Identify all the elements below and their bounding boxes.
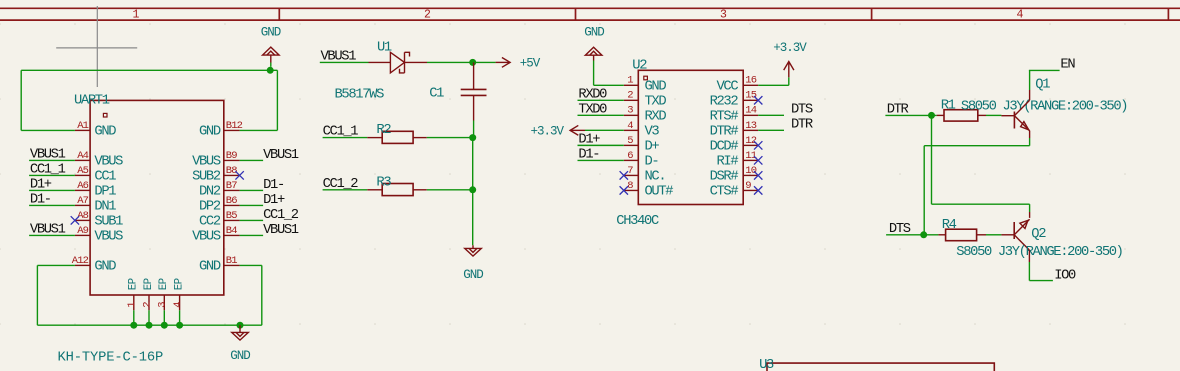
transistor Q2 (S8050 NPN, mirrored) <box>1014 219 1029 250</box>
junction EP3 <box>161 322 168 329</box>
junction EP1 <box>130 322 137 329</box>
svg-text:A7: A7 <box>77 195 88 207</box>
transistor Q2 base pin <box>1001 234 1014 236</box>
svg-text:DTR#: DTR# <box>710 125 739 140</box>
svg-text:5: 5 <box>627 135 633 147</box>
connector pin A12 (GND) <box>75 264 90 266</box>
svg-text:GND: GND <box>261 26 281 40</box>
IC U2 pin 10 (DSR#) <box>743 174 758 176</box>
svg-text:10: 10 <box>745 165 756 177</box>
svg-text:R3: R3 <box>376 175 391 190</box>
svg-text:3: 3 <box>627 105 633 117</box>
svg-text:DCD#: DCD# <box>710 140 739 155</box>
wire from pin B1 right <box>240 264 262 266</box>
wire D1- to pin A7 <box>29 204 75 206</box>
svg-text:TXD: TXD <box>645 95 667 110</box>
capacitor C1 <box>461 88 487 90</box>
svg-text:U2: U2 <box>632 59 647 74</box>
svg-text:IO0: IO0 <box>1054 268 1076 283</box>
svg-text:SUB1: SUB1 <box>94 215 123 230</box>
wire +3.3V to U2 pin 4 <box>585 129 624 131</box>
wire junction to +5V symbol <box>473 61 496 63</box>
resistor R3 <box>382 184 413 196</box>
svg-text:VBUS: VBUS <box>94 230 123 245</box>
wire GND top loop horizontal <box>21 69 277 71</box>
svg-text:14: 14 <box>745 105 756 117</box>
svg-text:7: 7 <box>627 165 633 177</box>
wire D1+ to U2 pin 5 <box>578 144 624 146</box>
transistor Q1 emitter pin <box>1029 131 1031 138</box>
connector pin A9 (VBUS) <box>75 234 90 236</box>
diode U1 B5817WS (schottky) <box>390 52 404 73</box>
connector pin A7 (DN1) <box>75 204 90 206</box>
resistor R1 right pin <box>978 114 986 116</box>
IC U2 pin 12 (DCD#) <box>743 144 758 146</box>
svg-text:VBUS1: VBUS1 <box>263 223 299 238</box>
IC U2 body (CH340C) <box>638 70 743 204</box>
connector pin EP1 <box>133 295 135 310</box>
IC U2 pin 5 (D+) <box>624 144 639 146</box>
svg-text:DSR#: DSR# <box>710 170 739 185</box>
no-connect on U2 pin 15 <box>754 96 762 104</box>
IC U2 pin 7 (NC.) <box>624 174 639 176</box>
junction DTS <box>920 231 927 238</box>
svg-text:GND: GND <box>230 349 250 363</box>
svg-text:2: 2 <box>141 302 153 308</box>
svg-text:GND: GND <box>199 260 221 275</box>
svg-text:KH-TYPE-C-16P: KH-TYPE-C-16P <box>58 351 164 366</box>
IC U2 pin 8 (OUT#) <box>624 189 639 191</box>
svg-text:U1: U1 <box>377 41 392 56</box>
no-connect on U2 pin 11 <box>754 156 762 164</box>
connector UART1 body <box>90 100 224 295</box>
IC U3 body (partial, bottom edge of view) <box>767 363 994 371</box>
svg-text:EN: EN <box>1060 57 1075 72</box>
svg-text:EP: EP <box>158 278 170 290</box>
svg-text:B5: B5 <box>226 210 237 222</box>
wire DTS to R4 <box>886 234 938 236</box>
svg-text:S8050 J3Y(RANGE:200-350): S8050 J3Y(RANGE:200-350) <box>961 99 1127 115</box>
svg-text:CC1_2: CC1_2 <box>263 208 299 223</box>
wire Q2 to IO0 <box>1028 262 1030 281</box>
no-connect on pin B8 <box>235 171 243 179</box>
wire from pin A12 left <box>37 264 75 266</box>
svg-text:EP: EP <box>143 278 155 290</box>
svg-text:RXD: RXD <box>645 110 667 125</box>
svg-text:RI#: RI# <box>717 155 739 170</box>
svg-text:6: 6 <box>627 150 633 162</box>
power symbol +3.3V (above U2) <box>788 62 790 78</box>
wire D1+ to pin A6 <box>29 189 75 191</box>
transistor Q1 (S8050 NPN) <box>1014 100 1029 131</box>
svg-text:11: 11 <box>745 150 756 162</box>
connector UART1 pin-1 marker square <box>103 113 107 117</box>
svg-text:B7: B7 <box>226 180 237 192</box>
svg-text:SUB2: SUB2 <box>192 170 221 185</box>
power symbol GND (bottom of connector) <box>239 325 241 332</box>
wire R1 to Q1 base <box>986 114 1001 116</box>
svg-text:GND: GND <box>584 26 604 40</box>
connector pin A8 (SUB1) <box>75 219 90 221</box>
wire pin B7 to D1- <box>240 189 264 191</box>
transistor Q2 collector pin <box>1029 212 1031 218</box>
no-connect on U2 pin 10 <box>754 171 762 179</box>
power symbol GND (top of connector) <box>263 47 280 55</box>
svg-text:VBUS: VBUS <box>192 230 221 245</box>
wire U2 VCC to +3.3V <box>758 84 789 86</box>
svg-text:1: 1 <box>133 8 140 21</box>
svg-text:Q2: Q2 <box>1031 227 1046 242</box>
svg-text:VBUS: VBUS <box>192 155 221 170</box>
resistor R2 left pin <box>367 137 382 139</box>
svg-text:1: 1 <box>126 302 138 308</box>
connector pin A4 (VBUS) <box>75 159 90 161</box>
wire EP2 to ground bus <box>148 310 150 325</box>
svg-text:V3: V3 <box>645 125 660 140</box>
svg-text:VBUS1: VBUS1 <box>263 148 299 163</box>
wire Q1 emitter to DTS net <box>1029 138 1031 146</box>
wire VBUS1 to diode <box>320 61 369 63</box>
svg-text:OUT#: OUT# <box>645 185 674 200</box>
resistor R1 left pin <box>937 114 944 116</box>
connector pin A1 (GND) <box>75 129 90 131</box>
no-connect on U2 pin 8 <box>620 186 628 194</box>
svg-text:C1: C1 <box>429 86 444 101</box>
wire down to GND <box>472 190 474 246</box>
svg-text:A1: A1 <box>77 120 88 132</box>
svg-text:B5817WS: B5817WS <box>335 87 385 102</box>
junction DTR <box>928 112 935 119</box>
wire U2 DTR# to DTR label <box>758 129 784 131</box>
svg-text:D+: D+ <box>645 140 660 155</box>
connector pin B9 (VBUS) <box>224 159 240 161</box>
wire to pin B12 <box>240 129 278 131</box>
svg-text:VBUS: VBUS <box>94 155 123 170</box>
svg-text:A6: A6 <box>77 180 88 192</box>
IC U2 pin 2 (TXD) <box>624 99 639 101</box>
junction at R3 row <box>469 186 476 193</box>
connector pin EP2 <box>148 295 150 310</box>
svg-text:4: 4 <box>172 302 184 308</box>
svg-text:+5V: +5V <box>520 56 541 70</box>
junction at R2 row <box>469 134 476 141</box>
svg-text:3: 3 <box>157 302 169 308</box>
connector pin B1 (GND) <box>224 264 240 266</box>
svg-text:13: 13 <box>745 120 756 132</box>
svg-text:DP1: DP1 <box>94 185 116 200</box>
svg-text:CC2: CC2 <box>199 215 221 230</box>
wire U2 RTS# to DTS label <box>758 114 784 116</box>
svg-text:UART1: UART1 <box>74 93 110 108</box>
no-connect on U2 pin 12 <box>754 141 762 149</box>
svg-text:D1+: D1+ <box>263 193 285 208</box>
svg-text:A9: A9 <box>77 225 88 237</box>
wire diode to +5V junction <box>427 61 473 63</box>
connector pin B7 (DN2) <box>224 189 240 191</box>
wire VBUS1 to pin A4 <box>29 159 75 161</box>
junction EP4 <box>176 322 183 329</box>
svg-text:12: 12 <box>745 135 756 147</box>
junction EP2 <box>146 322 153 329</box>
svg-text:Q1: Q1 <box>1035 78 1050 93</box>
resistor R4 <box>946 229 977 241</box>
wire EP4 to ground bus <box>179 310 181 325</box>
IC U2 pin 16 (VCC) <box>743 84 758 86</box>
power symbol GND (below C1) <box>472 245 474 248</box>
svg-text:A5: A5 <box>77 165 88 177</box>
svg-text:GND: GND <box>94 125 116 140</box>
connector pin B6 (DP2) <box>224 204 240 206</box>
svg-text:CC1: CC1 <box>94 170 116 185</box>
wire bottom loop left vertical <box>36 265 38 325</box>
svg-text:9: 9 <box>745 180 751 192</box>
svg-text:R1: R1 <box>941 98 956 113</box>
svg-text:B1: B1 <box>226 255 237 267</box>
connector pin B12 (GND) <box>224 129 240 131</box>
wire GND top loop left vertical <box>20 70 22 130</box>
connector pin EP4 <box>179 295 181 310</box>
svg-text:NC.: NC. <box>645 170 666 185</box>
svg-text:16: 16 <box>745 75 756 87</box>
resistor R3 left pin <box>367 189 382 191</box>
junction at bottom GND <box>237 322 244 329</box>
transistor Q1 collector pin <box>1029 90 1031 100</box>
connector pin A6 (DP1) <box>75 189 90 191</box>
connector pin A5 (CC1) <box>75 174 90 176</box>
svg-text:A8: A8 <box>77 210 88 222</box>
svg-text:B9: B9 <box>226 150 237 162</box>
svg-text:EP: EP <box>128 278 140 290</box>
IC U2 pin 9 (CTS#) <box>743 189 758 191</box>
wire CC1_1 to R2 <box>323 137 368 139</box>
capacitor C1 bottom pin <box>473 95 475 120</box>
IC U2 pin 14 (RTS#) <box>743 114 758 116</box>
wire pin B5 to CC1_2 <box>240 219 264 221</box>
svg-text:GND: GND <box>645 80 667 95</box>
svg-text:U3: U3 <box>759 358 774 371</box>
wire R3 to vertical bus <box>427 189 473 191</box>
no-connect on U2 pin 7 <box>620 171 628 179</box>
no-connect on U2 pin 9 <box>754 186 762 194</box>
wire C1 to R2 junction <box>473 121 475 138</box>
svg-text:2: 2 <box>627 90 633 102</box>
wire RXD0 to U2 pin 2 <box>578 99 624 101</box>
wire DTR to R1 <box>885 114 936 116</box>
wire pin B6 to D1+ <box>240 204 264 206</box>
IC U2 pin 4 (V3) <box>624 129 639 131</box>
wire bottom ground bus <box>37 324 261 326</box>
IC U2 pin 3 (RXD) <box>624 114 639 116</box>
svg-text:DP2: DP2 <box>199 200 221 215</box>
wire R4 to Q2 base <box>986 234 1001 236</box>
svg-text:4: 4 <box>1017 8 1024 21</box>
IC U2 pin 15 (R232) <box>743 99 758 101</box>
svg-text:8: 8 <box>627 180 633 192</box>
resistor R4 right pin <box>977 234 986 236</box>
svg-text:DTS: DTS <box>791 103 813 118</box>
svg-text:DN1: DN1 <box>94 200 116 215</box>
transistor Q2 emitter pin (to IO0) <box>1028 250 1030 262</box>
svg-text:+3.3V: +3.3V <box>530 124 564 138</box>
svg-text:15: 15 <box>745 90 756 102</box>
svg-text:GND: GND <box>199 125 221 140</box>
svg-text:CH340C: CH340C <box>616 214 659 229</box>
svg-text:GND: GND <box>94 260 116 275</box>
svg-text:1: 1 <box>627 75 633 87</box>
connector pin B5 (CC2) <box>224 219 240 221</box>
svg-text:CTS#: CTS# <box>710 185 739 200</box>
IC U2 pin-1 marker square <box>644 76 648 80</box>
svg-text:B8: B8 <box>226 165 237 177</box>
svg-text:R2: R2 <box>376 123 391 138</box>
no-connect on pin A8 <box>71 216 79 224</box>
wire VBUS1 to pin A9 <box>29 234 75 236</box>
wire EP1 to ground bus <box>133 310 135 325</box>
svg-text:VCC: VCC <box>717 80 739 95</box>
wire GND to U2 pin 1 <box>593 61 595 86</box>
svg-text:S8050 J3Y(RANGE:200-350): S8050 J3Y(RANGE:200-350) <box>956 244 1122 260</box>
wire R2 to vertical bus <box>427 137 473 139</box>
junction at C1 top <box>469 59 476 66</box>
wire GND top loop right vertical <box>276 70 278 130</box>
wire DTR junction down to Q2 collector <box>931 115 933 204</box>
IC U2 pin 1 (GND) <box>624 84 639 86</box>
wire EP3 to ground bus <box>163 310 165 325</box>
svg-text:GND: GND <box>463 268 483 282</box>
svg-text:3: 3 <box>720 8 727 21</box>
svg-text:B6: B6 <box>226 195 237 207</box>
junction at top GND <box>267 67 274 74</box>
connector pin EP3 <box>163 295 165 310</box>
svg-text:4: 4 <box>627 120 633 132</box>
wire CC1_2 to R3 <box>323 189 368 191</box>
transistor Q1 base pin <box>1001 115 1014 117</box>
connector pin B8 (SUB2) <box>224 174 240 176</box>
wire TXD0 to U2 pin 3 <box>578 114 624 116</box>
svg-text:+3.3V: +3.3V <box>773 41 807 55</box>
wire to pin A1 <box>21 129 75 131</box>
wire pin B9 to VBUS1 <box>240 159 264 161</box>
svg-text:DN2: DN2 <box>199 185 221 200</box>
svg-text:A4: A4 <box>77 150 88 162</box>
IC U2 pin 13 (DTR#) <box>743 129 758 131</box>
diode U1 anode pin <box>369 61 391 63</box>
connector pin B4 (VBUS) <box>224 234 240 236</box>
svg-text:RTS#: RTS# <box>710 110 739 125</box>
svg-text:EP: EP <box>174 278 186 290</box>
diode U1 cathode pin <box>405 61 428 63</box>
svg-text:R232: R232 <box>710 95 739 110</box>
svg-text:DTR: DTR <box>791 118 813 133</box>
svg-text:D1-: D1- <box>263 178 284 193</box>
resistor R2 right pin <box>413 137 427 139</box>
svg-text:R4: R4 <box>942 218 957 233</box>
resistor R4 left pin <box>938 234 945 236</box>
wire CC1_1 to pin A5 <box>29 174 75 176</box>
wire R2 junction down to R3 junction <box>472 138 474 190</box>
svg-text:2: 2 <box>424 8 431 21</box>
IC U2 pin 11 (RI#) <box>743 159 758 161</box>
wire pin B4 to VBUS1 <box>240 234 264 236</box>
power symbol +5V <box>496 61 511 63</box>
resistor R3 right pin <box>413 189 427 191</box>
IC U2 pin 6 (D-) <box>624 159 639 161</box>
svg-text:D-: D- <box>645 155 659 170</box>
resistor R1 <box>944 110 978 121</box>
resistor R2 <box>382 131 413 143</box>
wire Q1 collector to EN <box>1029 70 1031 90</box>
svg-text:B4: B4 <box>226 225 237 237</box>
wire bottom loop right vertical <box>261 265 263 325</box>
capacitor C1 top pin <box>473 62 475 89</box>
wire D1- to U2 pin 6 <box>578 159 624 161</box>
